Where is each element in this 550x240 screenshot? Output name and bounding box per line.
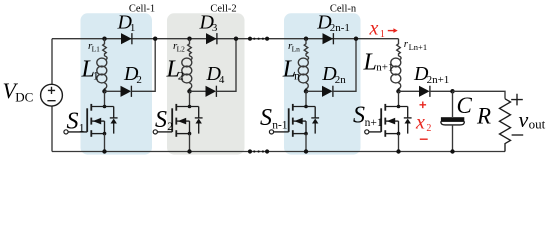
wire D2n+1 cathode to capacitor node: [430, 90, 453, 92]
svg-text:D2n+1: D2n+1: [413, 63, 449, 86]
node junction dot right of cell-n: [354, 37, 358, 41]
inductor Ln+1: [399, 56, 402, 60]
transistor Sn-1 (MOSFET with body diode): [305, 91, 307, 106]
diode D3 (top rail, points right): [206, 33, 217, 44]
gate terminal circle of S2: [153, 130, 157, 134]
red arrow (current direction): [388, 30, 394, 32]
node dot bottom of inductor branch cell-1: [102, 89, 107, 94]
svg-text:Sn-1: Sn-1: [260, 105, 288, 131]
junction dot Sn+1 source on bottom rail: [396, 149, 400, 153]
wire Sn+1 source to bottom rail: [398, 134, 400, 152]
resistor rLn (inductor ESR zigzag): [304, 39, 308, 56]
node junction dot right of cell-2: [234, 37, 238, 41]
inductor L1: [105, 56, 108, 60]
svg-text:x2: x2: [415, 112, 431, 135]
node dot bottom of Ln+1: [396, 89, 401, 94]
label + (output polarity): [511, 94, 523, 106]
cell-1 highlight box: [81, 13, 153, 154]
junction dot S2 source on bottom rail: [187, 149, 191, 153]
label - (output polarity): [512, 134, 524, 136]
red label + (capacitor voltage polarity): [420, 102, 427, 109]
inductor Ln: [306, 56, 309, 60]
svg-text:Cell-2: Cell-2: [210, 3, 236, 14]
svg-text:R: R: [476, 104, 491, 129]
gate terminal circle of Sn-1: [269, 130, 273, 134]
junction dot Sn-1 source on bottom rail: [304, 149, 308, 153]
ellipsis dots bottom rail: [248, 149, 252, 153]
transistor Sn+1 (MOSFET with body diode): [398, 91, 400, 106]
node junction dot right of cell-1: [153, 37, 157, 41]
gate terminal circle of S1: [64, 130, 68, 134]
capacitor C: [452, 91, 454, 117]
cell-n highlight box: [284, 13, 361, 154]
diode D2 (bottom, points right): [105, 90, 121, 92]
diode D1 (top rail, points right): [121, 33, 132, 44]
node dot bottom of inductor branch cell-n: [304, 89, 309, 94]
wire Sn-1 source to bottom rail: [305, 134, 307, 152]
wire capacitor node to load R: [453, 91, 506, 99]
wire S1 source to bottom rail: [104, 134, 106, 152]
node junction dot top of cell-2 branch: [187, 37, 191, 41]
node junction dot top of cell-n branch: [304, 37, 308, 41]
junction dot capacitor bottom on rail: [450, 149, 454, 153]
red label - (capacitor voltage polarity): [420, 138, 428, 140]
diode D2n (bottom, points right): [306, 90, 322, 92]
wire D2 cathode up to top rail: [131, 39, 155, 92]
diode D2n+1 (points right): [399, 90, 420, 92]
svg-text:Cell-n: Cell-n: [330, 3, 357, 14]
diode D2n-1 (top rail, points right): [323, 33, 334, 44]
voltage source VDC: [41, 84, 63, 106]
resistor rLn+1 (inductor ESR zigzag): [397, 39, 401, 56]
left rail wire (bottom segment): [51, 106, 53, 152]
inductor L2: [190, 56, 193, 60]
svg-text:Ln+1: Ln+1: [363, 50, 394, 76]
gate terminal circle of Sn+1: [365, 130, 369, 134]
diode D4 (bottom, points right): [190, 90, 206, 92]
node dot capacitor top: [450, 89, 455, 94]
transistor S1 (MOSFET with body diode): [104, 91, 106, 106]
wire S2 source to bottom rail: [189, 134, 191, 152]
resistor R (load zigzag): [500, 99, 511, 152]
junction dot S1 source on bottom rail: [102, 149, 106, 153]
resistor rL2 (inductor ESR zigzag): [188, 39, 192, 56]
wire D4 cathode up to top rail: [216, 39, 236, 92]
svg-text:C: C: [457, 93, 473, 118]
svg-text:vout: vout: [519, 107, 546, 132]
top rail wire: [52, 38, 399, 40]
transistor S2 (MOSFET with body diode): [189, 91, 191, 106]
resistor rL1 (inductor ESR zigzag): [103, 39, 107, 56]
left rail wire (top segment): [51, 39, 53, 85]
svg-text:Cell-1: Cell-1: [129, 3, 155, 14]
node junction dot top of cell-1 branch: [102, 37, 106, 41]
svg-text:rLn+1: rLn+1: [404, 38, 427, 52]
svg-text:x1: x1: [369, 17, 385, 40]
svg-text:VDC: VDC: [3, 78, 34, 105]
cell-2 highlight box: [167, 13, 245, 154]
svg-text:Sn+1: Sn+1: [353, 103, 383, 129]
node dot bottom of inductor branch cell-2: [187, 89, 192, 94]
ellipsis dots top rail: [248, 37, 252, 41]
wire D2n cathode up to top rail: [333, 39, 356, 92]
bottom rail wire: [52, 151, 505, 153]
